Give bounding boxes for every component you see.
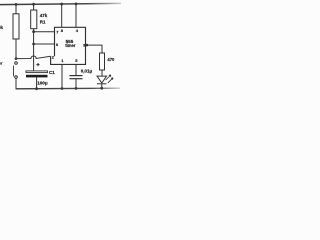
switch S1 node: [15, 57, 18, 60]
resistor R1 47k: [31, 10, 37, 29]
node pin 3 stub dot: [86, 44, 89, 47]
svg-text:470: 470: [107, 57, 115, 62]
wire C2 to ground rail: [75, 79, 77, 89]
node junction LED / ground rail: [100, 87, 103, 90]
svg-text:00k: 00k: [0, 25, 4, 30]
wire to pin 7: [34, 31, 55, 33]
svg-text:R1: R1: [40, 20, 46, 25]
svg-text:timer: timer: [65, 43, 76, 48]
wire R2 top lead: [15, 4, 17, 13]
capacitor C2 top plate: [70, 75, 83, 77]
switch S1 bottom contact: [15, 76, 18, 79]
wire C1 bottom lead: [36, 77, 38, 88]
capacitor C2 bottom plate: [70, 78, 83, 80]
svg-text:0,01μ: 0,01μ: [81, 69, 93, 74]
node junction pin1 / ground rail: [61, 87, 64, 90]
wire top supply rail: [0, 3, 121, 4]
node junction top rail / R2: [15, 3, 18, 6]
wire pin 8 to rail: [61, 4, 63, 27]
wire pin 3 to R3: [86, 45, 103, 53]
switch S1 lever: [13, 66, 15, 77]
wire R2 bottom lead: [15, 39, 17, 59]
node junction pin 6 wire: [32, 43, 35, 46]
resistor R2 (left, value cropped): [13, 14, 19, 39]
wire R1 top lead: [33, 4, 35, 10]
wire R3 to LED: [101, 70, 103, 76]
wire R1 bottom lead down to C1: [33, 29, 35, 71]
LED D1 triangle: [97, 76, 107, 83]
IC U1 555 timer box: [51, 27, 86, 64]
node junction top rail / R1: [32, 3, 35, 6]
svg-text:C1: C1: [49, 70, 55, 75]
node junction top rail / pin 8: [60, 3, 63, 6]
node junction pin 7 wire: [32, 30, 35, 33]
capacitor C1 bottom plate: [26, 75, 48, 78]
LED D1 cathode bar: [97, 83, 107, 85]
LED D1 arrow 1: [106, 75, 111, 80]
wire switch to ground rail: [15, 78, 17, 89]
capacitor C1 top plate: [26, 71, 48, 73]
switch S1 top contact: [15, 62, 18, 65]
wire to pin 6: [34, 43, 55, 45]
node junction C2 / ground rail: [75, 87, 78, 90]
svg-text:47k: 47k: [40, 13, 48, 18]
wire pin 1 to ground rail: [61, 64, 63, 88]
wire bottom ground rail: [16, 87, 120, 90]
node junction top rail / pin 4: [75, 3, 78, 6]
svg-text:er: er: [0, 61, 3, 66]
wire LED to ground rail: [101, 84, 103, 89]
svg-text:100μ: 100μ: [37, 81, 48, 86]
LED D1 arrow 2: [108, 78, 113, 83]
wire pin 4 to rail: [75, 4, 77, 27]
wire trigger to pin 2 with hop over C1 lead: [16, 56, 51, 59]
node junction C1 / ground rail: [35, 87, 38, 90]
wire pin 5 to C2: [75, 64, 77, 75]
capacitor C1 plus sign: [36, 64, 39, 66]
resistor R3 470: [100, 53, 105, 70]
